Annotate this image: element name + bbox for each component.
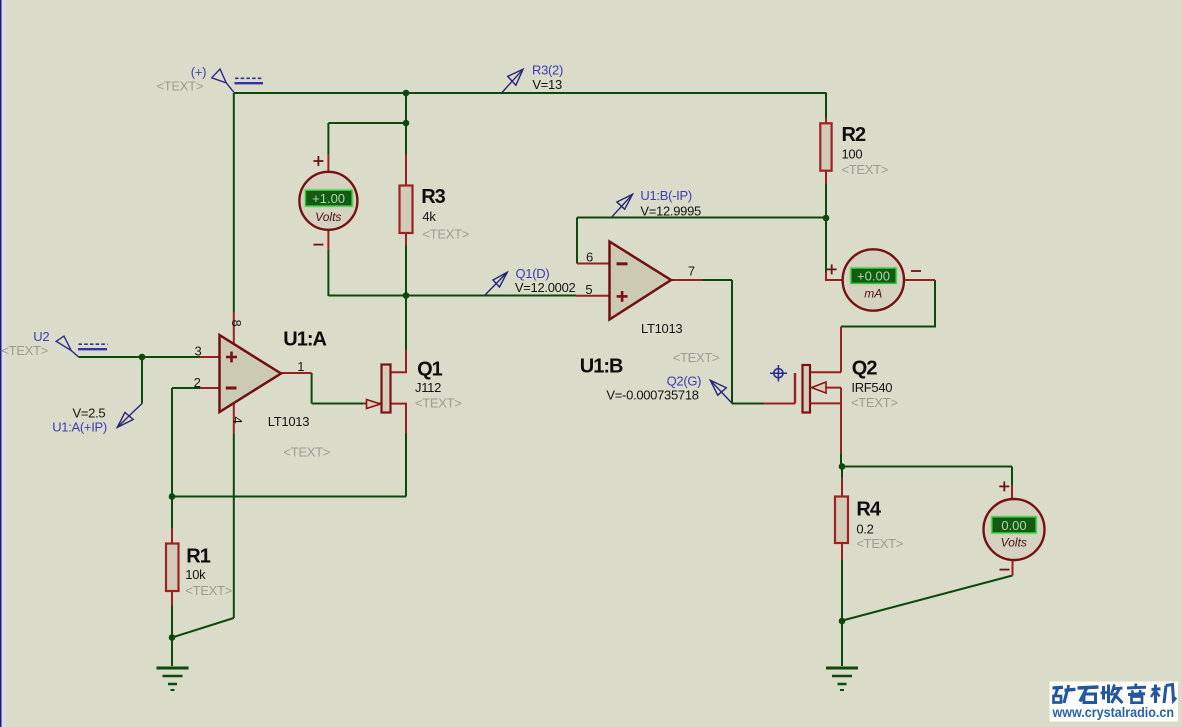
pin R1 top bbox=[171, 528, 173, 544]
svg-text:R2: R2 bbox=[842, 124, 866, 146]
wire V2 plus down bbox=[1011, 467, 1013, 486]
svg-text:V=13: V=13 bbox=[532, 77, 562, 92]
wire to Q1 gate bbox=[312, 403, 363, 405]
probe Q1(D) bbox=[485, 266, 576, 296]
node junction (842,466.5) bbox=[839, 463, 846, 470]
voltmeter V1 bbox=[299, 156, 357, 245]
svg-text:Q1(D): Q1(D) bbox=[516, 266, 550, 281]
svg-text:R3(2): R3(2) bbox=[532, 63, 563, 78]
wire Q1 drain up green bbox=[405, 296, 407, 350]
svg-text:0.00: 0.00 bbox=[1001, 518, 1026, 533]
wire ground stub right bbox=[841, 621, 843, 666]
wire feedback bottom bbox=[172, 496, 406, 498]
svg-text:V=-0.000735718: V=-0.000735718 bbox=[606, 388, 698, 403]
pin Q1 drain stub bbox=[391, 350, 407, 372]
wire ammeter to Q2 drain bbox=[841, 326, 936, 328]
probe R3(2) bbox=[502, 63, 563, 93]
wire R3 bottom green bbox=[405, 123, 407, 154]
wire Q1 source down green bbox=[405, 433, 407, 497]
node junction (172,637.5) bbox=[169, 634, 176, 641]
pin R2 top bbox=[825, 118, 827, 124]
pin V2 bottom bbox=[1012, 560, 1014, 576]
yin bbox=[1134, 684, 1137, 688]
resistor R4 bbox=[835, 497, 903, 552]
svg-text:<TEXT>: <TEXT> bbox=[842, 162, 889, 177]
svg-text:<TEXT>: <TEXT> bbox=[157, 78, 204, 93]
wire to Q2 gate bbox=[732, 403, 764, 405]
node junction (406,93) bbox=[403, 90, 410, 97]
pin voltmeter V1 bottom bbox=[327, 229, 329, 250]
wire R1 bottom green bbox=[171, 606, 173, 638]
pin R4 top bbox=[841, 478, 843, 498]
pin R3 top bbox=[405, 154, 407, 186]
generator U2 bbox=[1, 329, 107, 358]
svg-text:mA: mA bbox=[864, 286, 882, 300]
svg-text:<TEXT>: <TEXT> bbox=[856, 536, 903, 551]
pin ammeter left bbox=[826, 272, 843, 280]
window left edge bbox=[0, 0, 2, 727]
pin Q2 gate red bbox=[764, 403, 796, 405]
node junction (172,496.5) bbox=[169, 493, 176, 500]
svg-text:Q2(G): Q2(G) bbox=[667, 374, 702, 389]
svg-text:1: 1 bbox=[297, 359, 304, 374]
origin marker at Q2 bbox=[770, 365, 787, 382]
svg-text:4: 4 bbox=[230, 417, 245, 424]
wire ammeter right down bbox=[934, 280, 936, 327]
probe Q2(G) bbox=[606, 374, 732, 404]
pin U1:B pin7 red bbox=[671, 279, 703, 281]
shi bbox=[1078, 687, 1099, 688]
svg-text:LT1013: LT1013 bbox=[268, 414, 309, 429]
svg-text:10k: 10k bbox=[185, 567, 206, 582]
svg-text:<TEXT>: <TEXT> bbox=[283, 445, 330, 460]
wire V2 minus diagonal bbox=[843, 576, 1013, 621]
svg-text:3: 3 bbox=[195, 344, 202, 359]
probe U1:A(+IP) bbox=[52, 404, 142, 435]
node junction (842,621) bbox=[839, 618, 846, 625]
svg-text:Q2: Q2 bbox=[852, 357, 878, 379]
wire R3 lower green bbox=[405, 246, 407, 296]
svg-text:U1:B(-IP): U1:B(-IP) bbox=[640, 188, 691, 203]
svg-text:R1: R1 bbox=[186, 546, 210, 568]
resistor R3 bbox=[400, 186, 470, 242]
pin U1:A pin8 red bbox=[233, 312, 235, 344]
node junction (406,295.5) bbox=[403, 292, 410, 299]
svg-text:V=12.0002: V=12.0002 bbox=[515, 280, 576, 295]
wire voltmeter plus stub bbox=[327, 123, 329, 154]
ground (right) bbox=[826, 668, 858, 690]
pin U1:A pin4 red bbox=[233, 404, 235, 434]
pin V2 top bbox=[1011, 485, 1013, 500]
wire U1:B output green bbox=[703, 279, 732, 281]
svg-text:U2: U2 bbox=[33, 329, 49, 344]
svg-text:5: 5 bbox=[585, 282, 592, 297]
resistor R2 bbox=[820, 123, 888, 177]
wire feedback rail to R2 node bbox=[577, 217, 826, 219]
svg-text:U1:A: U1:A bbox=[283, 328, 326, 350]
wire Q2 source green bbox=[840, 454, 842, 467]
ji bbox=[1152, 687, 1161, 691]
transistor Q2 bbox=[795, 357, 898, 412]
node junction (826,218) bbox=[823, 215, 830, 222]
op-amp U1:A bbox=[194, 320, 330, 460]
pin Q2 source stub red bbox=[810, 403, 841, 454]
pin Q2 drain red bbox=[840, 327, 842, 373]
pin U1:A pin2 red bbox=[200, 387, 220, 389]
pin ammeter right bbox=[904, 279, 935, 281]
svg-text:<TEXT>: <TEXT> bbox=[673, 350, 720, 365]
svg-text:U1:A(+IP): U1:A(+IP) bbox=[52, 420, 107, 435]
probe U1:B(-IP) bbox=[612, 188, 702, 218]
svg-text:7: 7 bbox=[688, 264, 695, 279]
wire diagonal to ground node bbox=[172, 618, 234, 638]
wire U2 to pin3 bbox=[78, 356, 200, 358]
resistor R1 bbox=[166, 544, 232, 598]
shou bbox=[1102, 686, 1105, 700]
svg-text:LT1013: LT1013 bbox=[641, 321, 682, 336]
voltmeter V2 bbox=[984, 481, 1045, 569]
svg-text:8: 8 bbox=[229, 320, 244, 327]
pin Q2 bulk stub red bbox=[812, 387, 842, 389]
svg-text:<TEXT>: <TEXT> bbox=[1, 343, 48, 358]
svg-text:(+): (+) bbox=[191, 65, 206, 80]
svg-text:Volts: Volts bbox=[1001, 536, 1027, 550]
wire U1:B pin6 corner bbox=[576, 218, 578, 264]
wire U1:A pin4 down bbox=[233, 434, 235, 619]
svg-text:<TEXT>: <TEXT> bbox=[422, 226, 469, 241]
wire probe stub at U2 node bbox=[141, 357, 143, 404]
wire R2 top green bbox=[825, 93, 827, 119]
transistor Q1 bbox=[367, 359, 462, 413]
pin Q2 drain stub red bbox=[810, 371, 841, 373]
wire pin2 horizontal bbox=[172, 387, 200, 389]
wire R1 top green bbox=[171, 497, 173, 529]
pin U1:A pin1 red bbox=[281, 372, 312, 374]
wire R4 top green bbox=[841, 467, 843, 478]
wire voltmeter minus to node bbox=[328, 295, 406, 297]
svg-text:2: 2 bbox=[194, 375, 201, 390]
wire R3 node to voltmeter bbox=[328, 122, 406, 124]
wire node down to ammeter bbox=[825, 218, 827, 272]
watermark bbox=[1050, 682, 1179, 722]
wire U1:B output down bbox=[731, 280, 733, 404]
svg-text:<TEXT>: <TEXT> bbox=[415, 396, 462, 411]
svg-text:J112: J112 bbox=[415, 380, 441, 395]
svg-text:IRF540: IRF540 bbox=[851, 380, 892, 395]
ammeter bbox=[827, 249, 921, 310]
svg-text:V=2.5: V=2.5 bbox=[73, 405, 106, 420]
svg-text:100: 100 bbox=[842, 147, 863, 162]
pin U1:B pin5 red bbox=[576, 295, 610, 297]
svg-text:R3: R3 bbox=[421, 186, 445, 208]
svg-text:+0.00: +0.00 bbox=[857, 269, 890, 284]
svg-text:R4: R4 bbox=[856, 499, 881, 521]
wire node to U1:B pin5 bbox=[406, 295, 576, 297]
generator (+) bbox=[157, 65, 264, 94]
op-amp U1:B bbox=[580, 242, 720, 378]
svg-text:Volts: Volts bbox=[315, 210, 341, 224]
pin Q2 bulk-source link red bbox=[840, 388, 842, 404]
wire voltmeter minus down bbox=[327, 250, 329, 296]
node junction (406,123) bbox=[403, 120, 410, 127]
wire source node to V2 bbox=[842, 466, 1012, 468]
pin R1 bottom bbox=[171, 591, 173, 606]
pin R4 bottom bbox=[841, 543, 843, 561]
svg-text:<TEXT>: <TEXT> bbox=[185, 583, 232, 598]
pin Q1 gate red bbox=[363, 403, 382, 405]
watermark CJK glyphs bbox=[1053, 684, 1177, 704]
wire top rail bbox=[234, 92, 826, 94]
svg-text:4k: 4k bbox=[422, 209, 436, 224]
ground (left) bbox=[157, 668, 189, 690]
svg-text:+1.00: +1.00 bbox=[312, 191, 345, 206]
svg-text:6: 6 bbox=[586, 250, 593, 265]
wire pin1 down bbox=[311, 373, 313, 404]
svg-text:Q1: Q1 bbox=[417, 359, 443, 381]
svg-text:www.crystalradio.cn: www.crystalradio.cn bbox=[1052, 704, 1174, 720]
svg-text:V=12.9995: V=12.9995 bbox=[640, 203, 701, 218]
pin Q1 source stub bbox=[391, 404, 407, 433]
wire R2 bottom green bbox=[825, 184, 827, 218]
wire V+ rail down to U1:A pin 8 bbox=[233, 93, 235, 312]
pin R3 bottom bbox=[405, 233, 407, 246]
pin U1:A pin3 red bbox=[200, 356, 220, 358]
pin U1:B pin6 red bbox=[577, 263, 610, 265]
node junction (142,357) bbox=[139, 354, 146, 361]
kuang bbox=[1053, 686, 1064, 690]
wire junction to R3 top node bbox=[405, 93, 407, 123]
pin R2 bottom bbox=[825, 171, 827, 185]
svg-text:<TEXT>: <TEXT> bbox=[851, 395, 898, 410]
svg-text:U1:B: U1:B bbox=[580, 356, 623, 378]
wire R4 bottom green bbox=[841, 560, 843, 621]
pin voltmeter V1 top bbox=[327, 154, 329, 173]
wire pin2 vertical bbox=[171, 388, 173, 497]
svg-text:0.2: 0.2 bbox=[856, 522, 873, 537]
wire ground stub left bbox=[171, 638, 173, 667]
